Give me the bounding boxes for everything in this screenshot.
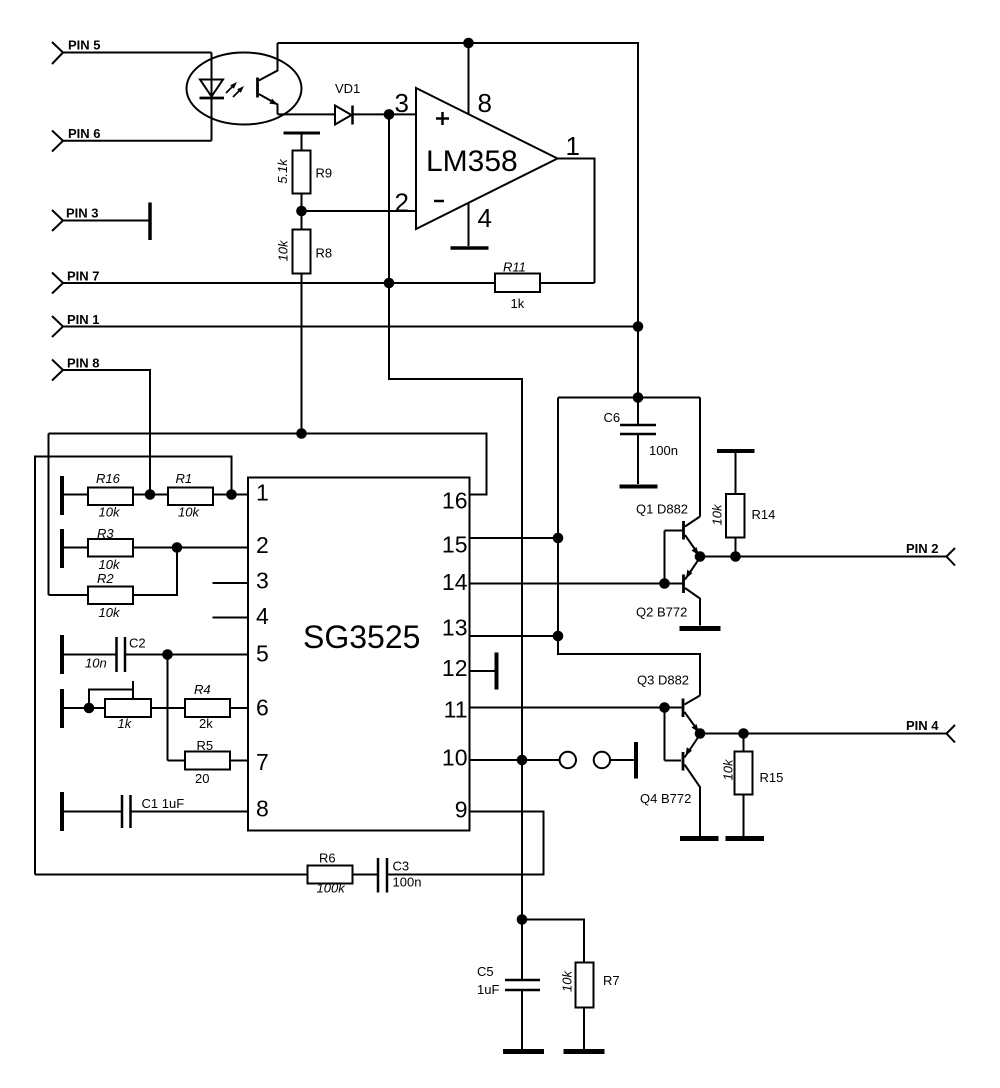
wire bar to C2 [64,654,117,656]
junction top supply / LM358 pin8 [463,38,474,49]
wire feedback rail pin1 node to R6 line [35,457,232,875]
svg-text:3: 3 [395,88,409,118]
resistor R6 [308,851,353,896]
resistor R3 [88,526,133,572]
connector PIN 6 [52,126,101,152]
svg-text:6: 6 [256,695,269,721]
junction R14 / PIN2 line [730,551,741,562]
resistor R16 [88,471,133,520]
connector PIN 8 [52,356,100,381]
power bar above R9 [284,133,321,151]
op-amp U1 LM358 [395,88,580,233]
ground R7 [564,1049,605,1054]
wire pin15 to supply rail [470,537,559,539]
resistor R2 [88,571,133,620]
svg-text:PIN 6: PIN 6 [68,126,101,141]
terminal bar C1 [60,792,64,831]
junction PIN7 / sense rail [384,278,395,289]
svg-text:1: 1 [256,480,269,506]
svg-text:10: 10 [442,745,468,771]
svg-text:VD1: VD1 [335,81,360,96]
svg-text:R4: R4 [194,682,211,697]
wire pin14 to Q1/Q2 bases [470,583,683,585]
wire node to R7 [522,920,584,963]
svg-text:100n: 100n [393,875,422,890]
svg-text:8: 8 [256,796,269,822]
resistor R14 [709,494,775,538]
svg-text:10k: 10k [99,505,121,520]
junction Q1/Q2 emitters [695,551,706,562]
connector PIN 7 [52,269,100,294]
svg-text:1k: 1k [118,716,133,731]
wire jog to Q4 base [665,760,682,762]
svg-text:11: 11 [444,697,468,723]
wire pin9 to C3 [387,812,544,875]
terminal bar C2 [60,635,64,674]
junction feedback / pin1 [226,489,237,500]
wire pin13 to supply rail [470,635,559,637]
IC U3 SG3525 [248,478,470,831]
svg-text:R1: R1 [176,471,193,486]
svg-text:Q2 B772: Q2 B772 [636,605,687,620]
ground Q2 [680,626,721,631]
terminal bar pin12 [495,653,499,690]
junction R9/R8 [296,206,307,217]
connector PIN 3 [52,206,99,232]
connector PIN 2 [906,541,955,566]
svg-text:LM358: LM358 [426,145,518,178]
junction soft-start node [517,914,528,925]
junction R15 / PIN4 line [738,728,749,739]
transistor Q2 B772 [636,558,700,626]
svg-text:Q3 D882: Q3 D882 [637,673,689,688]
svg-text:C5: C5 [477,964,494,979]
svg-text:1uF: 1uF [477,982,499,997]
svg-text:C6: C6 [604,410,621,425]
svg-text:PIN 5: PIN 5 [68,38,101,53]
capacitor C3 [378,858,421,893]
junction R2 / pin2 row [172,542,183,553]
svg-text:1: 1 [566,131,580,161]
wire C6 node horizontal [558,397,700,399]
pin 12 stub [470,670,495,672]
wire C1 to pin8 [131,811,249,813]
svg-text:10k: 10k [99,557,121,572]
svg-text:10k: 10k [559,970,574,992]
svg-text:4: 4 [256,603,269,629]
switch contact circle 2 [594,752,610,768]
wire R4 to pin6 [230,707,248,709]
terminal bar pot [60,689,64,728]
junction pin10 / sense rail [517,755,528,766]
transistor Q4 B772 [640,735,700,837]
wire branch to R5 [168,760,186,762]
wire emitter node to PIN4 [700,733,947,735]
svg-text:PIN 7: PIN 7 [67,269,100,284]
svg-text:C2: C2 [129,636,146,651]
wire C2 to pin5 [125,654,248,656]
svg-text:10k: 10k [709,503,724,525]
wire supply rail down to Q3 collector [558,398,700,696]
wire emitter node to PIN2 [700,556,947,558]
resistor R8 [275,230,332,274]
svg-text:R9: R9 [316,166,333,181]
resistor R1 [168,471,213,520]
svg-text:9: 9 [455,797,468,823]
transistor Q1 D882 [636,502,700,557]
wire R6 line from feedback rail [35,874,308,876]
pin 3 stub [213,582,249,584]
wire R16 to R1 [133,494,168,496]
junction pin5 / R5 branch [162,649,173,660]
capacitor C6 [604,398,678,485]
junction PIN1 / supply column [633,321,644,332]
svg-text:7: 7 [256,749,269,775]
wire Vref line R8 to pin16 [49,434,487,495]
wire pot to R4 [151,707,185,709]
junction PIN8 wire / pin1 row [145,489,156,500]
svg-text:PIN 3: PIN 3 [66,206,99,221]
wire R14 to PIN2 line [735,538,737,557]
ground C6 [620,485,658,489]
wire PIN7 to R11 left [63,282,495,284]
wire bar to C1 [64,811,122,813]
wire PIN5 to optocoupler LED anode [63,52,212,54]
svg-text:12: 12 [442,655,468,681]
svg-text:R8: R8 [316,246,333,261]
svg-text:2k: 2k [199,716,213,731]
optocoupler U2 LED [200,80,225,99]
svg-text:16: 16 [442,488,468,514]
junction R8 / Vref line [296,428,307,439]
optocoupler light arrows [226,82,244,97]
ground Q4 [680,836,719,841]
wire switch to terminal bar [611,759,635,761]
connector PIN 5 [52,38,101,65]
wire R11 right to LM358 output [540,282,595,284]
ground R15 [726,836,765,841]
svg-text:R3: R3 [97,526,114,541]
svg-text:PIN 1: PIN 1 [67,312,100,327]
wire Vref rail left down to R2 [48,434,50,596]
wire R6 to C3 [353,874,378,876]
svg-text:10k: 10k [99,605,121,620]
svg-text:C3: C3 [393,859,410,874]
diode VD1 [335,81,360,125]
svg-text:5.1k: 5.1k [275,158,290,184]
wire LM358 output pin1 down to R11 [558,159,595,284]
wire LM358 pin4 to ground [468,203,470,246]
svg-text:R14: R14 [752,507,776,522]
capacitor C5 [477,964,540,1049]
svg-text:100k: 100k [317,881,347,896]
junction pin14 / base jog [659,578,670,589]
resistor R5 [185,738,230,786]
ground C5 [503,1049,544,1054]
junction Q3/Q4 emitters [695,728,706,739]
wire R2 up to pin2 node [133,548,177,596]
connector PIN 1 [52,312,100,337]
svg-text:10k: 10k [275,239,290,261]
wire PIN6 to optocoupler LED cathode [63,140,212,142]
node C6 top junction [633,392,644,403]
wire PIN8 down to R16/R1 node [63,370,150,495]
svg-text:1k: 1k [511,296,525,311]
junction supply rail / pin13 [553,631,564,642]
capacitor C1 [122,795,184,828]
wire pin10 to switch [470,759,560,761]
node pin3 junction [384,109,395,120]
svg-text:10k: 10k [178,505,200,520]
svg-text:PIN 2: PIN 2 [906,541,939,556]
wire pin5 node down to R5 [167,655,169,761]
wire bar to pot [64,707,105,709]
potentiometer 1k [89,681,151,731]
resistor R4 [185,682,230,731]
svg-text:100n: 100n [649,443,678,458]
junction pin11 / base jog [659,702,670,713]
wire optocoupler emitter to VD1 anode [278,113,336,115]
wire LM358 pin8 supply [468,43,470,114]
switch contact circle 1 [560,752,576,768]
wire PIN3 [63,220,149,222]
wire LED vertical branch [211,53,213,141]
svg-text:Q1 D882: Q1 D882 [636,502,688,517]
wire PIN1 to supply column [63,326,638,328]
connector PIN 4 [906,718,955,743]
svg-text:10k: 10k [720,758,735,780]
wire Q1 collector [699,398,701,517]
svg-text:R7: R7 [603,973,620,988]
svg-text:2: 2 [395,188,409,218]
wire R5 to pin7 [230,760,248,762]
svg-text:2: 2 [256,532,269,558]
wire Vref rail to R2 [49,594,89,596]
power bar above R14 [717,451,755,494]
terminal bar R16 [60,476,64,515]
wire R9 to R8 [301,194,303,230]
svg-text:PIN 4: PIN 4 [906,718,939,733]
svg-text:3: 3 [256,568,269,594]
wire Q4 base jog [664,708,666,761]
terminal bar pin10 [634,742,638,779]
wire to LM358 pin2 [302,210,417,212]
svg-text:Q4 B772: Q4 B772 [640,791,691,806]
capacitor C2 [85,636,146,673]
svg-text:14: 14 [442,569,468,595]
pin 4 stub [213,617,249,619]
svg-text:4: 4 [478,203,492,233]
resistor R15 [720,734,783,837]
transistor Q3 D882 [637,673,700,734]
svg-text:SG3525: SG3525 [303,619,420,655]
svg-text:R15: R15 [760,770,784,785]
svg-text:10n: 10n [85,656,107,671]
svg-text:5: 5 [256,641,269,667]
svg-text:R6: R6 [319,851,336,866]
resistor R9 [275,151,332,194]
svg-text:R2: R2 [97,571,114,586]
svg-text:PIN 8: PIN 8 [67,356,100,371]
junction supply rail / pin15 [553,533,564,544]
svg-text:C1 1uF: C1 1uF [142,796,185,811]
svg-text:R11: R11 [503,260,526,275]
terminal bar R3 [60,529,64,568]
wire bar to R3 [64,547,88,549]
optocoupler phototransistor [258,43,278,114]
wire Q1 base jog [664,531,666,584]
wire pin11 to Q3 base [470,707,682,709]
terminal bar PIN3 [148,203,152,241]
wire R1 to SG3525 pin1 [213,494,248,496]
svg-text:15: 15 [442,532,468,558]
wire bar to R16 [64,494,88,496]
optocoupler body ellipse [187,53,302,125]
svg-text:13: 13 [442,615,468,641]
resistor R7 [559,963,619,1050]
wire top supply from optocoupler collector to right column [278,43,639,398]
svg-text:20: 20 [195,771,209,786]
svg-text:8: 8 [478,88,492,118]
svg-text:R16: R16 [96,471,121,486]
junction pot wiper [84,703,95,714]
resistor R11 [495,260,540,312]
wire R3 to pin2 [133,547,248,549]
ground LM358 [451,246,489,250]
wire R8 bottom to Vref line [301,274,303,434]
wire sense rail pin3 node down to PIN7 line and C5 [389,114,522,979]
svg-text:R5: R5 [197,738,214,753]
wire VD1 cathode to LM358 pin3 [353,113,417,115]
